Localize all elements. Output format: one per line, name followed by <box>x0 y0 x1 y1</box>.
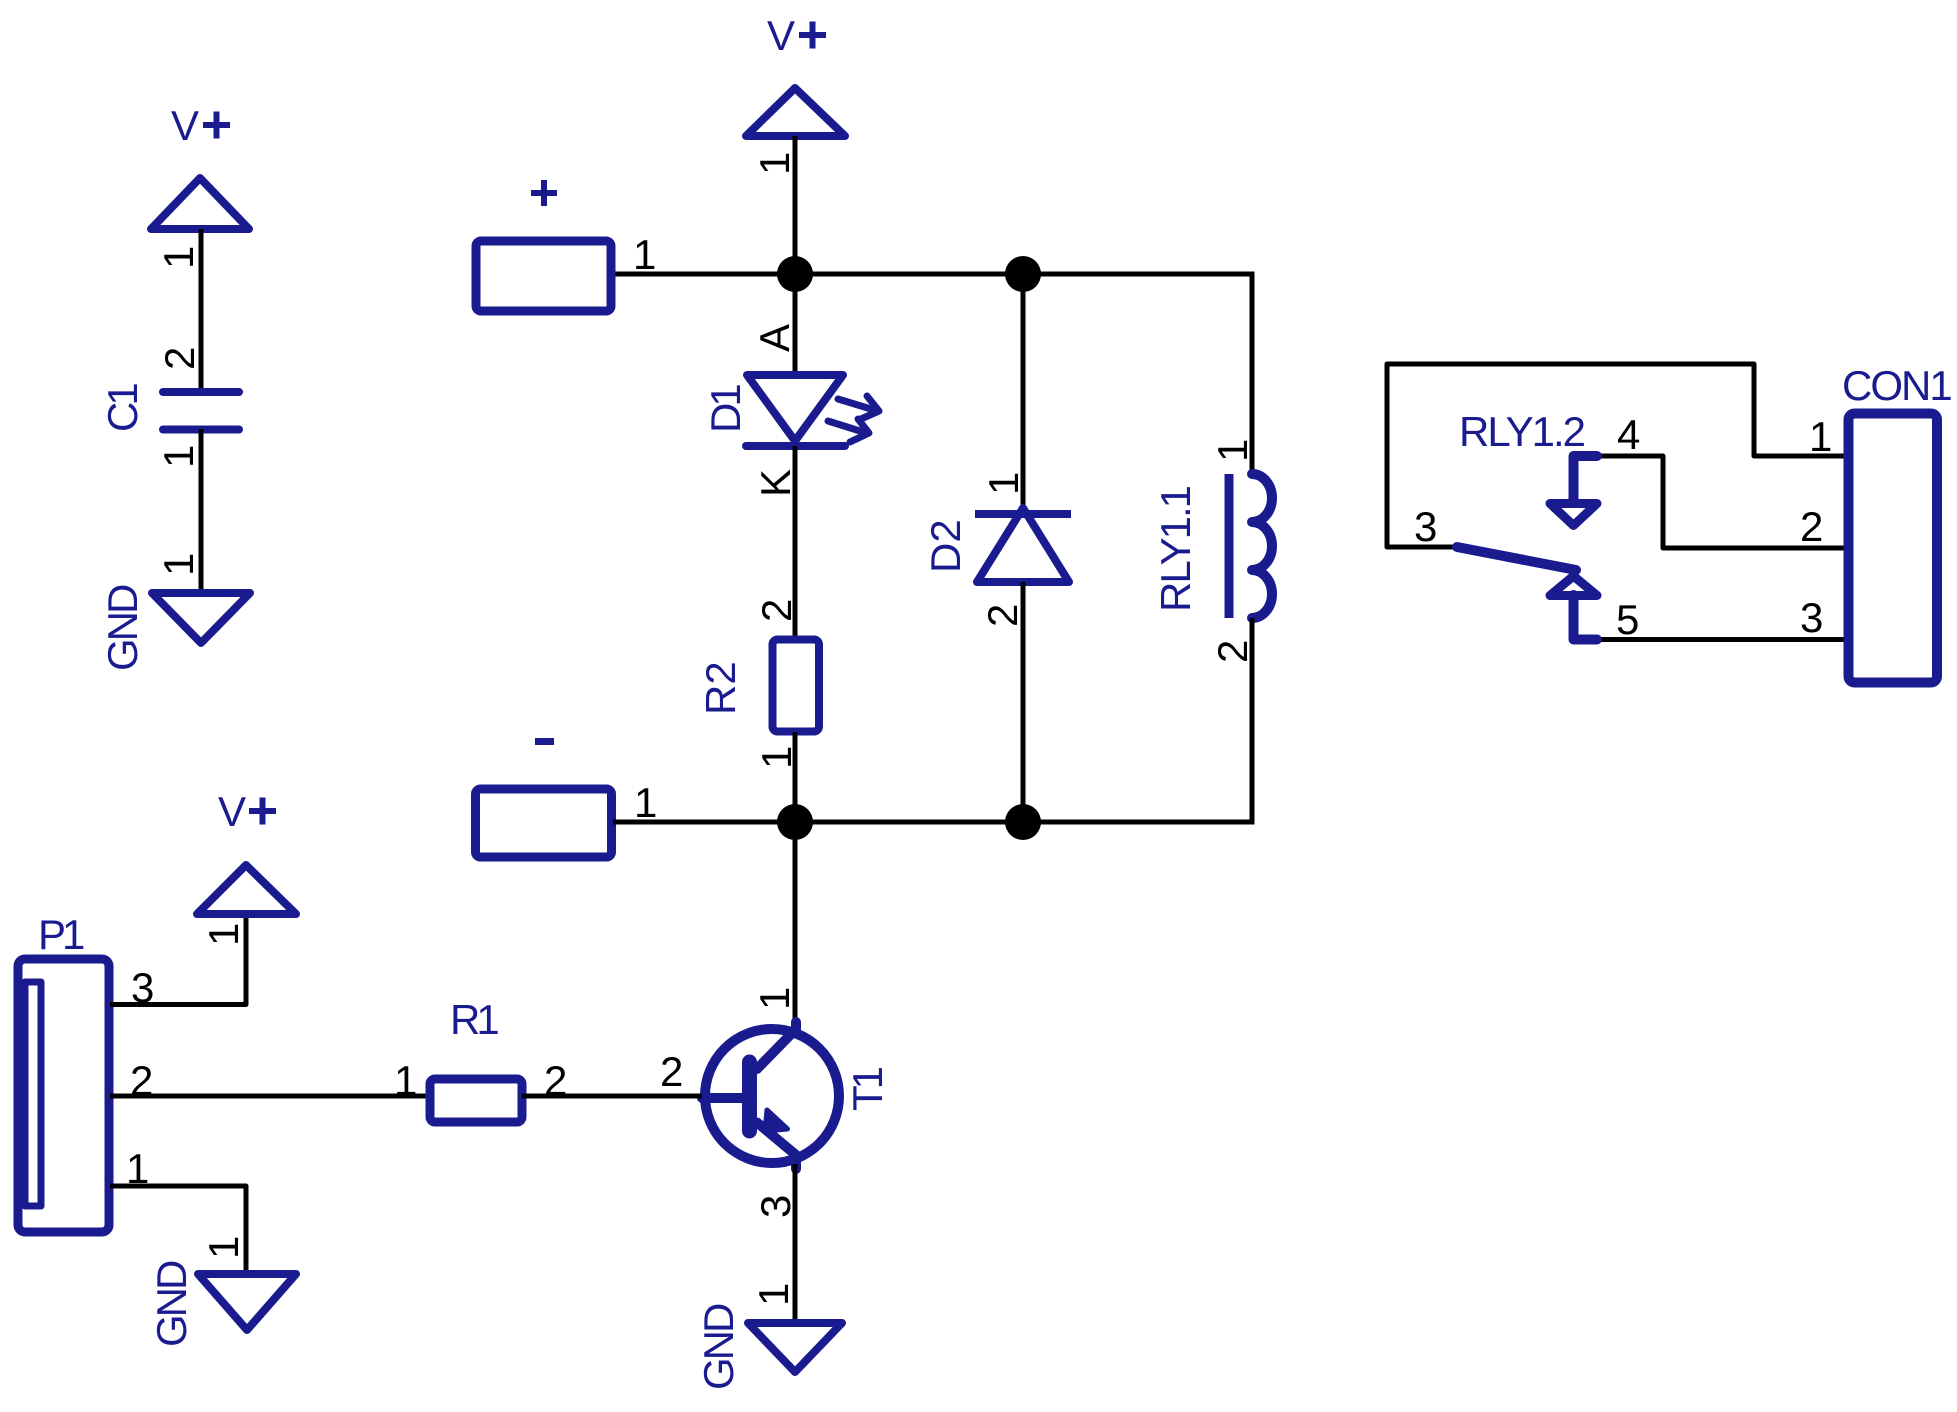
transistor T1 emitter stroke <box>757 1123 796 1170</box>
svg-text:3: 3 <box>1800 594 1823 641</box>
wire D1 cathode to R2 <box>793 446 798 639</box>
diode D2 cathode bar <box>975 510 1071 518</box>
svg-text:1: 1 <box>155 445 202 468</box>
resistor R2 body <box>773 640 820 732</box>
RIGHT SIDE : RLY1.2 + CON1 <box>1387 362 1951 683</box>
wire D2 top <box>1021 274 1026 514</box>
svg-text:1: 1 <box>980 472 1027 495</box>
svg-text:2: 2 <box>1800 503 1823 550</box>
relay RLY1.2 switch blade <box>1457 547 1576 570</box>
wire net: relay common to CON1 pin 1 <box>1387 364 1844 547</box>
wire P1 pin 3 to V+ <box>110 914 246 1005</box>
svg-text:2: 2 <box>660 1048 683 1095</box>
svg-text:CON1: CON1 <box>1842 362 1951 409</box>
relay RLY1.2 upper contact arrow <box>1550 504 1597 526</box>
TRANSISTOR AREA <box>660 822 891 1390</box>
svg-text:2: 2 <box>1209 640 1256 663</box>
LEFT COLUMN : V+ / C1 / GND <box>99 102 250 671</box>
svg-text:RLY1.1: RLY1.1 <box>1152 486 1199 612</box>
power symbol V+ (left) triangle <box>151 178 249 229</box>
svg-text:3: 3 <box>752 1195 799 1218</box>
wire bus to D1 anode <box>793 274 798 375</box>
wire P1 pin 2 to R1 pin 1 <box>110 1094 430 1099</box>
svg-text:GND: GND <box>695 1304 742 1390</box>
junction node at D2 top <box>1005 256 1041 292</box>
wire RLY1.1 top <box>1250 272 1255 475</box>
resistor R1 body <box>430 1079 522 1122</box>
pad + rectangle <box>476 241 611 311</box>
wire V+ down to top bus <box>793 136 798 274</box>
wire P1 pin 1 to GND <box>110 1186 246 1274</box>
P1 AREA <box>18 788 702 1347</box>
wire net: relay NO contact pin 5 to CON1 pin 3 <box>1598 637 1844 642</box>
pad - label <box>535 738 554 745</box>
CENTER TOP : V+, pads, D1, R2, D2, RLY1.1 <box>476 12 1273 857</box>
svg-text:1: 1 <box>155 246 202 269</box>
svg-text:R1: R1 <box>450 996 498 1043</box>
svg-text:1: 1 <box>155 553 202 576</box>
pad - rectangle <box>476 789 612 857</box>
wire top bus <box>613 272 1255 277</box>
svg-text:1: 1 <box>750 1283 797 1306</box>
relay coil RLY1.1 arcs <box>1252 474 1272 618</box>
svg-text:D2: D2 <box>922 519 969 573</box>
svg-text:4: 4 <box>1617 411 1640 458</box>
wire V+ to C1 pin 2 <box>199 229 204 392</box>
svg-text:V: V <box>171 102 199 149</box>
svg-text:1: 1 <box>751 152 798 175</box>
relay RLY1.2 lower contact arrow <box>1550 576 1597 596</box>
connector CON1 body <box>1849 414 1938 683</box>
svg-text:1: 1 <box>751 987 798 1010</box>
svg-text:5: 5 <box>1616 596 1639 643</box>
wire bottom bus <box>613 820 1255 825</box>
svg-text:3: 3 <box>1414 503 1437 550</box>
junction node at D2 bottom <box>1005 804 1041 840</box>
diode D2 triangle <box>977 508 1069 582</box>
svg-text:1: 1 <box>634 779 657 826</box>
svg-text:1: 1 <box>633 231 656 278</box>
wire C1 pin 1 to GND <box>199 429 204 593</box>
svg-text:1: 1 <box>394 1057 417 1104</box>
svg-text:RLY1.2: RLY1.2 <box>1459 408 1585 455</box>
svg-text:D1: D1 <box>702 385 749 433</box>
svg-text:1: 1 <box>200 923 247 946</box>
wire D2 bottom <box>1021 582 1026 822</box>
wire R2 to bottom bus <box>793 732 798 822</box>
power symbol V+ (above P1) triangle <box>197 865 296 914</box>
capacitor C1 bottom plate <box>163 426 239 434</box>
relay RLY1.2 upper contact lead <box>1574 456 1598 500</box>
connector P1 inner bar <box>25 982 41 1206</box>
transistor T1 emitter arrowhead <box>765 1110 788 1131</box>
wire RLY1.1 bottom <box>1250 618 1255 825</box>
ground symbol GND (left) triangle <box>152 593 250 643</box>
transistor T1 collector stroke <box>757 1022 796 1069</box>
relay RLY1.2 lower contact lead <box>1574 595 1598 640</box>
junction node at R2/T1 <box>777 804 813 840</box>
ground symbol GND (below P1) triangle <box>198 1274 296 1330</box>
svg-text:1: 1 <box>200 1236 247 1259</box>
svg-text:2: 2 <box>979 604 1026 627</box>
junction node at D1 anode <box>777 256 813 292</box>
svg-text:1: 1 <box>1809 413 1832 460</box>
transistor T1 circle <box>705 1029 839 1163</box>
svg-text:GND: GND <box>148 1261 195 1347</box>
svg-text:C1: C1 <box>99 384 146 432</box>
svg-text:V: V <box>767 12 795 59</box>
LED D1 light arrow 2 <box>828 419 869 442</box>
svg-text:1: 1 <box>1209 439 1256 462</box>
pad + label <box>531 180 557 206</box>
svg-text:P1: P1 <box>38 911 84 958</box>
wire bus to T1 collector <box>793 822 798 1032</box>
wire R1 pin 2 to T1 base <box>522 1094 702 1099</box>
relay coil RLY1.1 core bar <box>1225 474 1234 618</box>
power symbol V+ (center) triangle <box>746 88 845 136</box>
connector P1 outer body <box>18 959 109 1232</box>
capacitor C1 top plate <box>163 388 239 396</box>
transistor T1 base stub <box>702 1093 748 1103</box>
svg-text:2: 2 <box>156 347 203 370</box>
svg-text:R2: R2 <box>697 661 744 715</box>
LED D1 cathode bar <box>746 442 845 450</box>
svg-text:V: V <box>218 788 246 835</box>
svg-text:K: K <box>752 469 799 497</box>
transistor T1 base bar <box>742 1062 757 1131</box>
svg-text:GND: GND <box>99 585 146 671</box>
wire T1 emitter to GND <box>793 1164 798 1323</box>
svg-text:2: 2 <box>753 599 800 622</box>
LED D1 triangle <box>747 375 843 441</box>
LED D1 light arrow 1 <box>838 396 879 419</box>
svg-text:T1: T1 <box>844 1067 891 1111</box>
ground symbol GND (below T1) triangle <box>748 1323 842 1372</box>
svg-text:A: A <box>751 324 798 352</box>
wire net: relay NC contact pin 4 to CON1 pin 2 <box>1598 456 1844 548</box>
